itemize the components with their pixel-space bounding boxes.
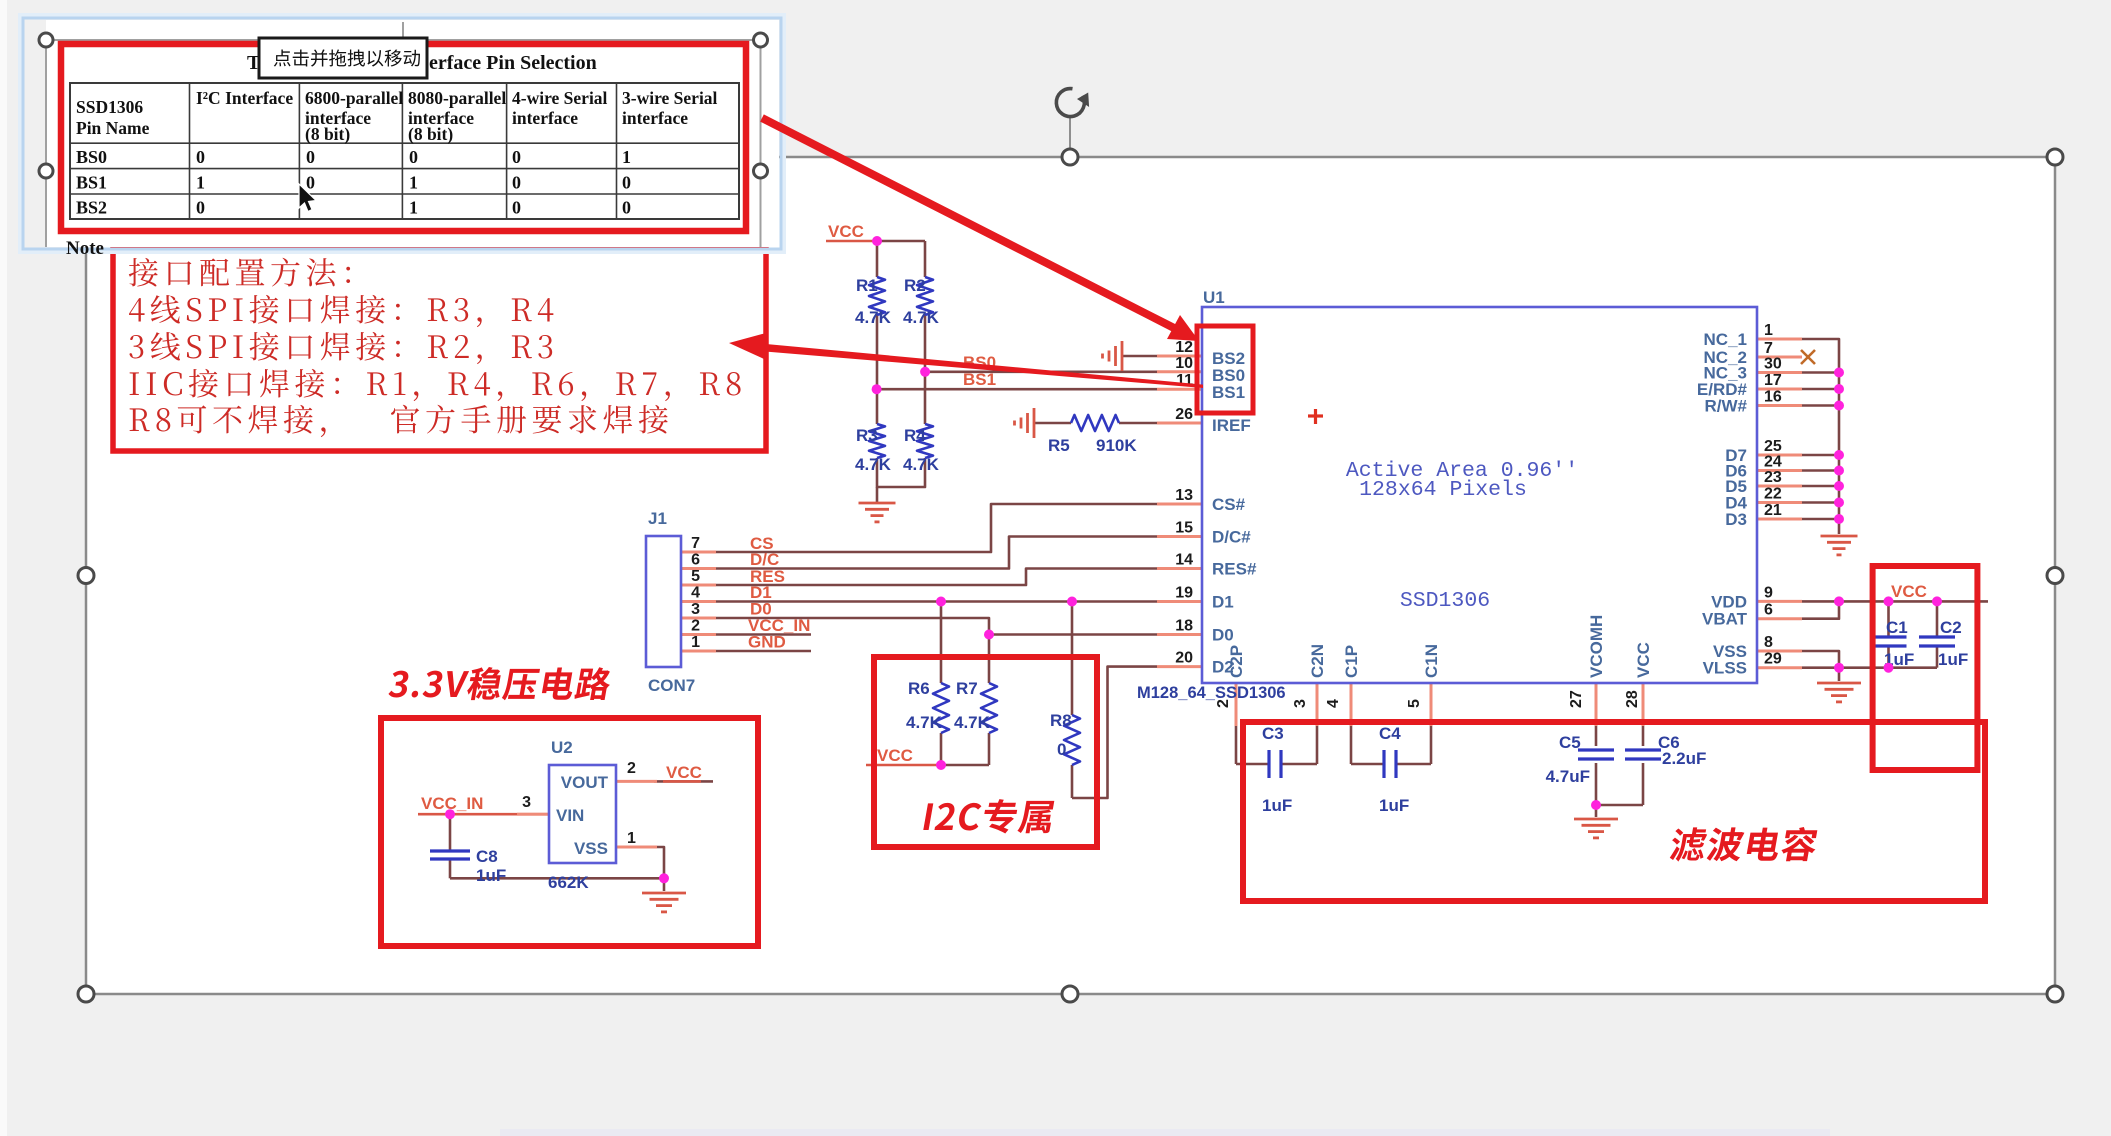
svg-text:(8 bit): (8 bit) [305,124,350,144]
svg-text:1: 1 [409,173,418,193]
U1 left pin stubs [1157,355,1202,358]
svg-text:VCC: VCC [666,763,702,782]
wire VLSS / ground rail [1802,666,1937,669]
svg-text:VBAT: VBAT [1702,610,1748,629]
svg-text:0: 0 [512,173,521,193]
svg-text:1: 1 [196,173,205,193]
wire D7 [1802,454,1839,457]
svg-text:VIN: VIN [556,806,584,825]
wire R7 top connection to D0 [988,635,991,684]
wire C4 horizontal [1351,763,1384,766]
svg-text:0: 0 [409,147,418,167]
capacitor C3 1uF [1267,750,1270,778]
wire D0 net from J1 pin3 to U1 pin18 [716,618,1157,635]
resistor R4 4.7K [917,424,933,458]
svg-text:C4: C4 [1379,724,1401,743]
wire C2 column [1936,601,1939,637]
left application edge strip [0,0,7,1136]
svg-text:R2: R2 [904,276,926,295]
J1 pin stubs [681,551,716,554]
svg-text:4.7K: 4.7K [855,308,892,327]
wire E/RD# [1802,388,1839,391]
red crosshair cursor mark [1308,414,1323,417]
svg-text:C1P: C1P [1342,645,1361,678]
selection handles [78,149,94,165]
capacitor C6 2.2uF [1625,748,1661,751]
svg-text:R3: R3 [856,426,878,445]
wire NC_1 to bus [1802,339,1839,373]
svg-text:(8 bit): (8 bit) [408,124,453,144]
callout 3.3V regulator [387,667,613,700]
svg-text:C5: C5 [1559,733,1581,752]
resistor R5 910K [1071,415,1119,431]
svg-text:19: 19 [1175,585,1193,602]
svg-text:14: 14 [1175,552,1193,569]
ground right-side data bus [1821,535,1858,538]
svg-text:D3: D3 [1725,510,1747,529]
svg-text:GND: GND [748,633,786,652]
svg-text:2.2uF: 2.2uF [1662,749,1706,768]
svg-text:0: 0 [622,198,631,218]
note text line 2 [129,298,145,321]
wire VCC net at U2 VOUT [654,780,713,783]
svg-text:BS1: BS1 [963,370,996,389]
red box I2C only [874,657,1097,847]
svg-text:3-wire Serial: 3-wire Serial [622,88,718,108]
svg-text:BS1: BS1 [76,173,107,193]
svg-text:5: 5 [691,568,700,585]
svg-text:C8: C8 [476,847,498,866]
resistor R2 4.7K [917,277,933,315]
wire NC_3 [1802,371,1839,374]
svg-text:C3: C3 [1262,724,1284,743]
wire R8 top connection to D1 [1071,602,1074,716]
svg-text:1uF: 1uF [1379,796,1409,815]
svg-text:BS0: BS0 [76,147,107,167]
svg-text:M128_64_SSD1306: M128_64_SSD1306 [1137,684,1286,702]
svg-text:12: 12 [1175,339,1193,356]
wire D6 [1802,469,1839,472]
resistor R6 4.7K [933,683,949,733]
svg-text:0: 0 [622,173,631,193]
svg-text:8080-parallel: 8080-parallel [408,88,506,108]
svg-text:15: 15 [1175,520,1193,537]
svg-text:CON7: CON7 [648,676,695,695]
wire C2P column [1235,726,1238,764]
wire VCC net in I2C block [866,764,941,767]
svg-text:23: 23 [1764,469,1782,486]
svg-text:24: 24 [1764,454,1782,471]
svg-text:U2: U2 [551,738,573,757]
svg-text:16: 16 [1764,389,1782,406]
svg-text:6: 6 [1764,602,1773,619]
svg-text:IREF: IREF [1212,416,1251,435]
svg-text:U1: U1 [1203,288,1225,307]
resistor R8 0 ohm [1064,715,1080,765]
svg-text:VLSS: VLSS [1703,659,1747,678]
svg-text:I²C Interface: I²C Interface [196,88,293,108]
wire R7 bottom [988,733,991,765]
svg-text:3: 3 [1292,699,1309,708]
red box C1 C2 [1873,566,1978,770]
svg-text:VDD: VDD [1711,592,1747,611]
svg-text:1uF: 1uF [476,866,506,885]
svg-text:1uF: 1uF [1262,796,1292,815]
svg-text:13: 13 [1175,487,1193,504]
svg-text:4: 4 [691,585,700,602]
ground below R3 R4 [859,502,896,505]
wire C1N column [1430,726,1433,764]
svg-text:SSD1306: SSD1306 [1400,589,1490,613]
table grid [70,83,739,219]
note text line 1 [129,258,158,287]
wire BS0 net [925,370,1157,373]
svg-text:0: 0 [512,147,521,167]
red box around table [61,44,746,231]
red box 3.3V regulator [381,718,758,946]
svg-text:4.7uF: 4.7uF [1546,767,1590,786]
panel selection frame lines [45,40,47,247]
svg-text:VCC: VCC [1634,642,1653,678]
wire C3 horizontal [1236,763,1269,766]
svg-text:28: 28 [1624,690,1641,708]
svg-text:4.7K: 4.7K [954,713,991,732]
wire R6 bottom [940,733,943,765]
wire C2N column [1316,726,1319,764]
svg-text:VCOMH: VCOMH [1587,615,1606,678]
svg-text:C2: C2 [1940,618,1962,637]
wire VCC net right (VDD/VBAT to C1 C2) [1802,600,1988,603]
resistor R7 4.7K [981,683,997,733]
svg-text:R7: R7 [956,679,978,698]
svg-text:Note: Note [66,238,104,259]
wire BS1 net [877,388,1157,391]
wire GND stub at J1 pin1 [716,650,811,653]
svg-text:R/W#: R/W# [1705,397,1748,416]
note text line 3 [129,335,143,358]
svg-text:R5: R5 [1048,436,1070,455]
svg-text:1: 1 [1764,322,1773,339]
capacitor C4 1uF [1382,750,1385,778]
wire D1 net from J1 pin4 to U1 pin19 [716,600,1157,603]
svg-text:2: 2 [691,618,700,635]
wire D4 [1802,501,1839,504]
svg-text:SSD1306: SSD1306 [76,97,143,117]
callout I2C only [923,799,1055,833]
svg-text:4.7K: 4.7K [903,455,940,474]
svg-text:NC_1: NC_1 [1704,330,1747,349]
svg-text:29: 29 [1764,651,1782,668]
wire D5 [1802,485,1839,488]
wire CS net from J1 pin7 to U1 pin13 [716,504,1157,552]
wire R8 bottom [1071,765,1074,798]
svg-text:4.7K: 4.7K [855,455,892,474]
svg-text:3: 3 [691,601,700,618]
svg-text:30: 30 [1764,356,1782,373]
wire D3 [1802,518,1839,521]
wire R6 top connection to D1 [940,602,943,684]
U1 right pin stubs [1757,338,1802,341]
wire U2 VSS to ground [616,847,664,878]
svg-text:Pin Name: Pin Name [76,118,150,138]
wire C5 C6 ground rail [1596,804,1643,807]
svg-text:17: 17 [1764,372,1782,389]
wire VBAT riser [1802,601,1839,618]
svg-text:7: 7 [1764,340,1773,357]
drag tooltip [259,38,427,78]
svg-text:27: 27 [1568,690,1585,708]
svg-text:1: 1 [622,147,631,167]
svg-text:CS#: CS# [1212,495,1246,514]
svg-text:20: 20 [1175,650,1193,667]
capacitor C8 1uF [430,849,470,852]
wire C1 column [1887,601,1890,637]
svg-text:RES#: RES# [1212,560,1257,579]
svg-text:0: 0 [196,147,205,167]
wire VCC_IN stub at J1 pin2 [716,633,811,636]
red box filter caps [1243,722,1985,901]
wire VCC column (pin28) [1642,726,1645,746]
svg-text:662K: 662K [548,873,589,892]
svg-text:D1: D1 [1212,593,1234,612]
resistor R1 4.7K [869,277,885,315]
svg-text:interface: interface [512,108,578,128]
capacitor C2 1uF [1919,635,1955,638]
U1 bottom pin stubs [1235,683,1238,726]
ground below VLSS [1817,682,1861,685]
svg-text:R1: R1 [856,276,878,295]
wire C1P column [1350,726,1353,764]
svg-text:VCC: VCC [1891,582,1927,601]
red arrow from table to BS pins [762,118,1176,329]
floating drag panel [25,20,779,247]
red annotation box around BS pins [1197,326,1253,413]
U2 pin stubs [616,780,657,783]
ground below U2 VSS [642,892,686,895]
wire R2 column [924,241,927,277]
svg-text:0: 0 [512,198,521,218]
callout filter caps [1668,827,1819,862]
sideways ground at R5 [1033,408,1036,438]
note text line 5 [130,408,150,431]
svg-text:4-wire Serial: 4-wire Serial [512,88,608,108]
faint partially-visible row at screen bottom [500,1129,1830,1136]
wire R1 column [876,241,879,277]
svg-text:erface Pin Selection: erface Pin Selection [429,52,597,74]
svg-text:8: 8 [1764,634,1773,651]
svg-text:interface: interface [622,108,688,128]
svg-text:C1: C1 [1886,618,1908,637]
wire right-side ground bus [1838,373,1841,520]
note text line 4 [130,372,139,395]
resistor R3 4.7K [869,424,885,458]
svg-text:C1N: C1N [1422,644,1441,678]
wire BS2 to ground [1122,355,1157,358]
svg-text:1: 1 [409,198,418,218]
svg-text:22: 22 [1764,486,1782,503]
selection frame of schematic image [86,157,2055,994]
svg-text:5: 5 [1406,699,1423,708]
svg-text:R4: R4 [904,426,926,445]
no-connect X at NC_2 [1801,350,1815,364]
svg-text:0: 0 [306,147,315,167]
svg-text:0: 0 [306,173,315,193]
svg-text:910K: 910K [1096,436,1137,455]
rotation handle icon [1069,117,1071,150]
svg-text:9: 9 [1764,584,1773,601]
svg-text:1: 1 [627,830,636,847]
svg-text:VCC: VCC [828,222,864,241]
svg-text:4.7K: 4.7K [903,308,940,327]
svg-text:J1: J1 [648,509,667,528]
svg-text:VCC_IN: VCC_IN [421,794,483,813]
wire VCOMH column [1595,726,1598,746]
svg-text:26: 26 [1175,406,1193,423]
junction dots [872,236,882,246]
red arrow from BS1 to note box [757,343,1203,388]
svg-text:BS2: BS2 [76,198,107,218]
capacitor C1 1uF [1871,635,1907,638]
wire RES net from J1 pin5 to U1 pin14 [716,569,1157,586]
white schematic canvas [86,157,2055,994]
svg-text:VOUT: VOUT [561,773,609,792]
ground below C5 C6 [1574,818,1618,821]
svg-text:0: 0 [196,198,205,218]
svg-text:3: 3 [522,794,531,811]
svg-text:4: 4 [1325,699,1342,708]
capacitor C5 4.7uF [1578,748,1614,751]
sideways ground at BS2 [1121,341,1124,371]
svg-text:VSS: VSS [574,839,608,858]
wire IREF to R5 [1034,422,1071,425]
svg-text:7: 7 [691,535,700,552]
wire VSS riser [1802,651,1839,668]
mouse cursor in table [299,184,316,212]
panel selection handles [39,33,53,47]
svg-text:R6: R6 [908,679,930,698]
svg-text:R8: R8 [1050,711,1072,730]
floating drag panel glow [21,16,783,251]
svg-text:1uF: 1uF [1938,650,1968,669]
wire C8 column [449,814,452,851]
wire R3 R4 bottoms to ground [877,458,925,487]
wire D2 net from U1 pin20 to R8 [1072,667,1157,798]
wire VCC_IN to U2 VIN [418,813,549,816]
chip U1 SSD1306 [1202,307,1757,683]
svg-text:D0: D0 [1212,626,1234,645]
svg-text:VCC: VCC [877,746,913,765]
svg-text:BS1: BS1 [1212,383,1245,402]
svg-text:1: 1 [691,634,700,651]
svg-text:4.7K: 4.7K [906,713,943,732]
svg-text:25: 25 [1764,438,1782,455]
regulator U2 662K [549,765,616,863]
wire VCC net top (power to R1 R2) [826,240,877,243]
svg-text:21: 21 [1764,502,1782,519]
svg-text:6800-parallel: 6800-parallel [305,88,403,108]
wire R/W# [1802,404,1839,407]
svg-text:6: 6 [691,552,700,569]
svg-text:128x64 Pixels: 128x64 Pixels [1359,478,1527,502]
svg-text:18: 18 [1175,618,1193,635]
svg-text:C2N: C2N [1308,644,1327,678]
connector J1 CON7 [646,536,681,667]
svg-text:2: 2 [627,760,636,777]
red note box (interface config) [113,246,766,451]
svg-text:0: 0 [1057,740,1066,759]
svg-text:C2P: C2P [1227,645,1246,678]
svg-text:10: 10 [1175,355,1193,372]
wire D/C net from J1 pin6 to U1 pin15 [716,537,1157,569]
svg-text:D/C#: D/C# [1212,528,1251,547]
wire C8/VSS bottom rail [450,877,664,880]
